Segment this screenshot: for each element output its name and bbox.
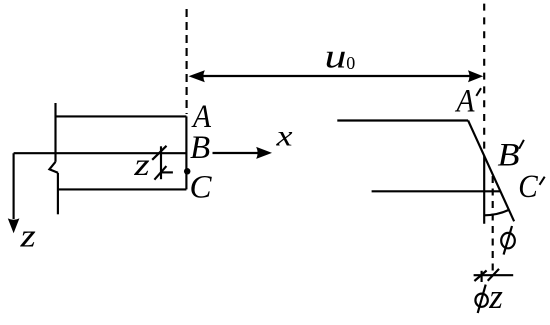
left section dashed line [186, 9, 188, 114]
deformed mid line [372, 190, 501, 192]
beam left cut line upper [54, 103, 56, 162]
u0 arrow shaft [200, 75, 470, 77]
svg-text:u: u [325, 38, 347, 75]
svg-text:C: C [190, 169, 213, 205]
svg-text:B: B [498, 137, 520, 173]
phi-z right tick slash [488, 269, 499, 281]
svg-text:C: C [518, 169, 538, 205]
x-axis shaft [213, 152, 259, 154]
z dimension top tick [152, 146, 166, 160]
svg-text:x: x [275, 120, 293, 153]
phi-z left tick vertical [481, 271, 483, 282]
svg-text:z: z [133, 146, 150, 182]
z-axis arrowhead [8, 218, 20, 233]
u0 right arrowhead [468, 70, 483, 82]
vertical reference through B' [483, 156, 485, 224]
beam left cut break zigzag [49, 162, 58, 173]
label phi angle [501, 233, 515, 248]
z-axis shaft [13, 153, 15, 219]
deformed top fiber [337, 119, 468, 121]
phi-z dimension line [474, 274, 514, 276]
svg-text:z: z [19, 218, 36, 254]
beam mid line through B [14, 152, 187, 154]
beam top fiber [56, 115, 187, 117]
x-axis arrowhead [256, 147, 272, 159]
right section dashed line [483, 4, 485, 150]
angle arc phi [484, 210, 509, 216]
point C dot [184, 168, 191, 175]
beam left cut line lower [57, 173, 59, 215]
label phi of phi-z [475, 294, 487, 307]
z dimension line [160, 146, 162, 179]
beam right edge section A-C [185, 116, 187, 189]
svg-text:z: z [488, 277, 503, 316]
svg-text:B: B [190, 130, 210, 166]
phi-z left tick slash [474, 271, 486, 282]
deformed section slant A'-C' [468, 121, 514, 222]
z dimension stub [161, 171, 173, 173]
svg-text:A: A [455, 83, 476, 119]
beam bottom fiber [58, 188, 187, 190]
svg-text:0: 0 [346, 53, 355, 73]
u0 left arrowhead [189, 70, 205, 82]
z dimension bottom tick [154, 166, 166, 180]
C-prime projection dashed line [492, 176, 494, 274]
